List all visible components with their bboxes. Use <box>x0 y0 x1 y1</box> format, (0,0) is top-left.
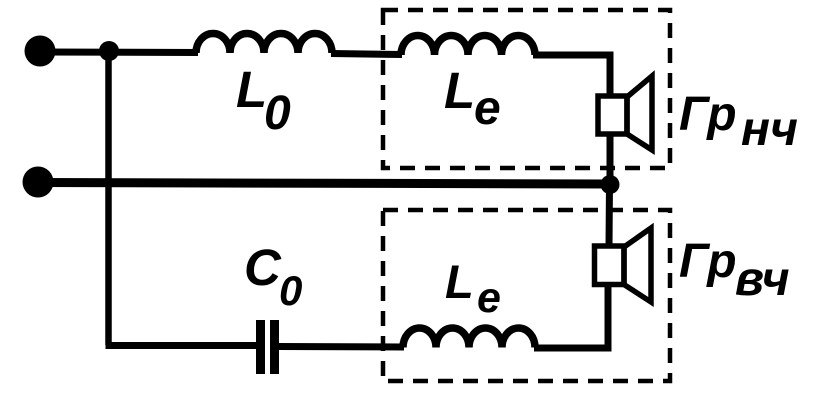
svg-text:L: L <box>445 255 474 308</box>
svg-text:L: L <box>236 61 267 118</box>
wire: corner to capacitor <box>106 342 258 349</box>
wire: capacitor to Le bottom <box>278 343 404 351</box>
dashed box around bottom Le + speaker <box>383 210 670 381</box>
inductor L0 <box>196 34 332 54</box>
svg-text:e: e <box>474 82 501 135</box>
svg-text:L: L <box>444 62 475 119</box>
middle wire: bottom terminal to common junction <box>38 183 610 185</box>
inductor Le (top) <box>401 36 535 56</box>
capacitor C0 plate left <box>256 320 265 374</box>
vertical wire: top junction down to C0 branch <box>105 51 112 346</box>
wire: speaker 2 top to junction <box>606 184 614 246</box>
svg-text:Гр: Гр <box>679 88 737 141</box>
svg-text:C: C <box>244 239 282 296</box>
junction node (common speaker node) <box>601 175 620 194</box>
svg-text:0: 0 <box>264 87 291 140</box>
svg-text:Гр: Гр <box>679 235 737 288</box>
wire: speaker 1 bottom to junction <box>607 134 614 184</box>
svg-text:0: 0 <box>279 267 302 314</box>
wire: Le bottom to speaker 2 corner <box>534 285 608 348</box>
dashed box around top Le + speaker <box>383 10 670 168</box>
capacitor C0 plate right <box>270 320 279 374</box>
node junction on top wire <box>99 41 119 61</box>
wire: Le to speaker 1 corner <box>533 55 610 96</box>
speaker Гр_вч horn <box>624 228 651 302</box>
speaker Гр_вч box <box>595 246 625 285</box>
wire: L0 to Le <box>331 54 402 55</box>
speaker Гр_нч horn <box>627 76 652 150</box>
speaker Гр_нч box <box>598 96 627 134</box>
inductor Le (bottom) <box>403 328 535 348</box>
terminal (input, bottom) <box>23 167 54 198</box>
svg-text:нч: нч <box>741 103 798 156</box>
svg-text:e: e <box>477 274 501 322</box>
svg-text:вч: вч <box>735 253 790 306</box>
wire top: terminal to L0 <box>40 49 198 57</box>
terminal (input, top) <box>25 36 56 67</box>
